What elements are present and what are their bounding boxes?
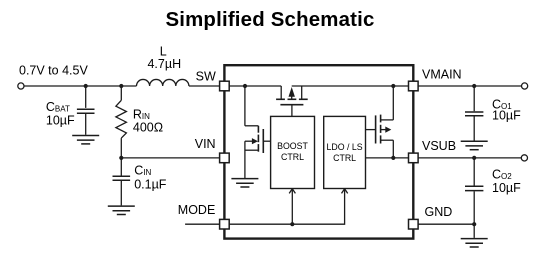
- IC outline U1: [224, 65, 413, 238]
- svg-text:10µF: 10µF: [492, 181, 521, 195]
- wire boost ctrl arrow shaft: [291, 189, 293, 224]
- svg-text:10µF: 10µF: [46, 113, 75, 127]
- svg-text:SW: SW: [196, 70, 216, 84]
- svg-text:Simplified Schematic: Simplified Schematic: [165, 9, 374, 31]
- ground (CIN): [108, 206, 135, 214]
- capacitor CO1: [465, 86, 483, 141]
- svg-text:GND: GND: [425, 205, 453, 219]
- node SW rail junction: [243, 84, 247, 88]
- input terminal circle: [18, 83, 24, 89]
- transistor Q2 LDO PMOS: [366, 86, 394, 158]
- svg-text:10µF: 10µF: [492, 109, 521, 123]
- ground (CBAT): [72, 136, 99, 144]
- wire VMAIN internal rail right: [292, 85, 409, 87]
- svg-text:CTRL: CTRL: [281, 152, 304, 162]
- svg-text:400Ω: 400Ω: [133, 120, 163, 134]
- svg-text:0.7V to 4.5V: 0.7V to 4.5V: [19, 63, 88, 77]
- node VMAIN rail junction: [391, 84, 395, 88]
- svg-text:LDO / LS: LDO / LS: [327, 142, 363, 152]
- node GND junction: [472, 222, 476, 226]
- block BOOST CTRL: [271, 116, 315, 188]
- node VSUB junction: [391, 156, 395, 160]
- wire inductor to SW pin: [189, 85, 219, 87]
- pin VSUB: [409, 153, 419, 163]
- wire VMAIN output rail: [418, 85, 521, 87]
- svg-text:VMAIN: VMAIN: [422, 67, 462, 81]
- svg-text:4.7µH: 4.7µH: [147, 57, 181, 71]
- transistor Q3 rectifier PMOS: [276, 86, 308, 116]
- ground (CO2/GND): [461, 239, 488, 247]
- wire input rail: [24, 85, 137, 87]
- wire SW internal rail left: [229, 85, 281, 87]
- node CO1 junction: [472, 84, 476, 88]
- pin MODE: [220, 219, 230, 229]
- svg-text:0.1µF: 0.1µF: [134, 177, 167, 191]
- node VIN junction: [119, 156, 123, 160]
- node MODE bus junction: [290, 222, 294, 226]
- arrowhead into LDO CTRL: [342, 189, 348, 194]
- resistor RIN 400ohm: [116, 86, 127, 158]
- ground (CO1): [461, 141, 488, 149]
- pin GND: [409, 219, 419, 229]
- pin VIN: [220, 153, 230, 163]
- wire VIN rail: [121, 157, 219, 159]
- ground (Q1 source): [231, 179, 258, 187]
- pin VMAIN: [409, 81, 419, 91]
- node battery junction: [84, 84, 88, 88]
- wire VSUB internal: [366, 157, 409, 159]
- svg-text:VSUB: VSUB: [422, 139, 456, 153]
- capacitor CO2: [465, 158, 483, 238]
- output terminal VMAIN: [522, 83, 528, 89]
- pin SW: [220, 81, 230, 91]
- wire MODE internal bus: [229, 189, 344, 224]
- capacitor CBAT: [77, 86, 95, 135]
- node RIN junction: [119, 84, 123, 88]
- inductor L 4.7uH: [137, 79, 189, 86]
- wire MODE stub: [185, 223, 219, 225]
- wire GND external: [418, 223, 474, 225]
- capacitor CIN: [113, 158, 131, 206]
- svg-text:MODE: MODE: [178, 203, 216, 217]
- wire VSUB output rail: [418, 157, 521, 159]
- arrowhead into BOOST CTRL: [289, 189, 295, 194]
- block LDO/LS CTRL: [324, 116, 366, 188]
- svg-text:BOOST: BOOST: [277, 141, 308, 151]
- transistor Q1 boost NMOS: [245, 86, 271, 179]
- svg-text:CTRL: CTRL: [333, 153, 356, 163]
- output terminal VSUB: [521, 155, 527, 161]
- svg-text:VIN: VIN: [195, 137, 216, 151]
- node CO2 junction: [472, 156, 476, 160]
